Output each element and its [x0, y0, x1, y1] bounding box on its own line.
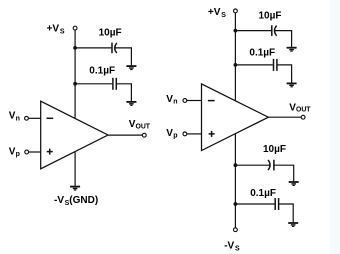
junction dot (left 0.1uF tap) — [73, 82, 77, 86]
wire to C2 (left 0.1uF) — [75, 83, 112, 85]
junction dot (right top 0.1uF tap) — [234, 63, 238, 67]
terminal VOUT (left) — [142, 133, 146, 137]
wire C2 to ground (left) — [116, 84, 131, 101]
terminal +VS (right) — [234, 9, 238, 13]
wire Vp to U1 — [29, 151, 41, 153]
capacitor C6 0.1uF (right bottom) — [275, 198, 278, 210]
wire C3 to ground (right top) — [275, 31, 292, 47]
wire to C5 (right bottom 10uF) — [235, 164, 270, 166]
wire C1 to ground (left) — [115, 48, 131, 66]
terminal -VS (right) — [234, 228, 238, 232]
minus sign U2 — [208, 100, 215, 102]
wire Vn to U2 — [187, 100, 202, 102]
junction dot (right top 10uF tap) — [234, 29, 238, 33]
capacitor C4 0.1uF (right top) — [274, 59, 277, 71]
wire U1 to ground (left bottom) — [74, 151, 76, 186]
svg-text:10µF: 10µF — [259, 10, 282, 21]
ground (right C4) — [287, 83, 297, 86]
junction dot (right bottom 0.1uF tap) — [234, 202, 238, 206]
wire +VS rail (right) — [234, 13, 236, 101]
wire +VS rail (left) — [74, 30, 76, 118]
minus sign U1 — [47, 117, 54, 119]
svg-text:0.1µF: 0.1µF — [89, 65, 115, 76]
capacitor C2 0.1uF (left) — [113, 78, 116, 90]
terminal Vn (left) — [25, 116, 29, 120]
svg-text:0.1µF: 0.1µF — [250, 188, 276, 199]
wire C4 to ground (right top) — [277, 65, 292, 83]
svg-text:10µF: 10µF — [263, 144, 286, 155]
wire U1 output (left) — [108, 134, 142, 136]
ground (right C6) — [288, 223, 298, 226]
wire Vn to U1 — [29, 117, 41, 119]
terminal VOUT (right) — [301, 115, 305, 119]
terminal Vn (right) — [183, 99, 187, 103]
ground (right C5) — [289, 182, 299, 185]
junction dot (left 10uF tap) — [73, 46, 77, 50]
wire to C1 (left 10uF) — [75, 47, 111, 49]
wire to C6 (right bottom 0.1uF) — [235, 203, 274, 205]
terminal +VS (left) — [73, 26, 77, 30]
wire to C4 (right top 0.1uF) — [235, 64, 272, 66]
op-amp U2 (right) — [202, 84, 269, 151]
junction dot (right bottom 10uF tap) — [234, 163, 238, 167]
ground (left U1 VEE) — [70, 187, 80, 190]
capacitor C5 10uF (right bottom, polarized) — [268, 160, 274, 171]
page gutter band — [330, 0, 340, 254]
terminal Vp (left) — [25, 150, 29, 154]
terminal Vp (right) — [183, 132, 187, 136]
svg-text:10µF: 10µF — [99, 28, 122, 39]
wire Vp to U2 — [187, 133, 202, 135]
ground (left C1) — [126, 66, 136, 69]
capacitor C1 10uF (left, polarized) — [112, 43, 117, 54]
capacitor C3 10uF (right top, polarized) — [272, 25, 277, 36]
ground (right C3) — [287, 48, 297, 51]
wire C6 to ground (right bottom) — [279, 204, 294, 222]
wire to C3 (right top 10uF) — [235, 30, 271, 32]
plus sign U2 — [209, 131, 215, 137]
op-amp U1 (left) — [41, 101, 108, 169]
wire -VS rail (right bottom) — [234, 134, 236, 228]
svg-text:-VS(GND): -VS(GND) — [54, 195, 98, 207]
wire U2 output — [268, 116, 301, 118]
wire C5 to ground (right bottom) — [274, 165, 294, 181]
ground (left C2) — [126, 102, 136, 105]
plus sign U1 — [47, 149, 53, 155]
svg-text:0.1µF: 0.1µF — [249, 47, 275, 58]
